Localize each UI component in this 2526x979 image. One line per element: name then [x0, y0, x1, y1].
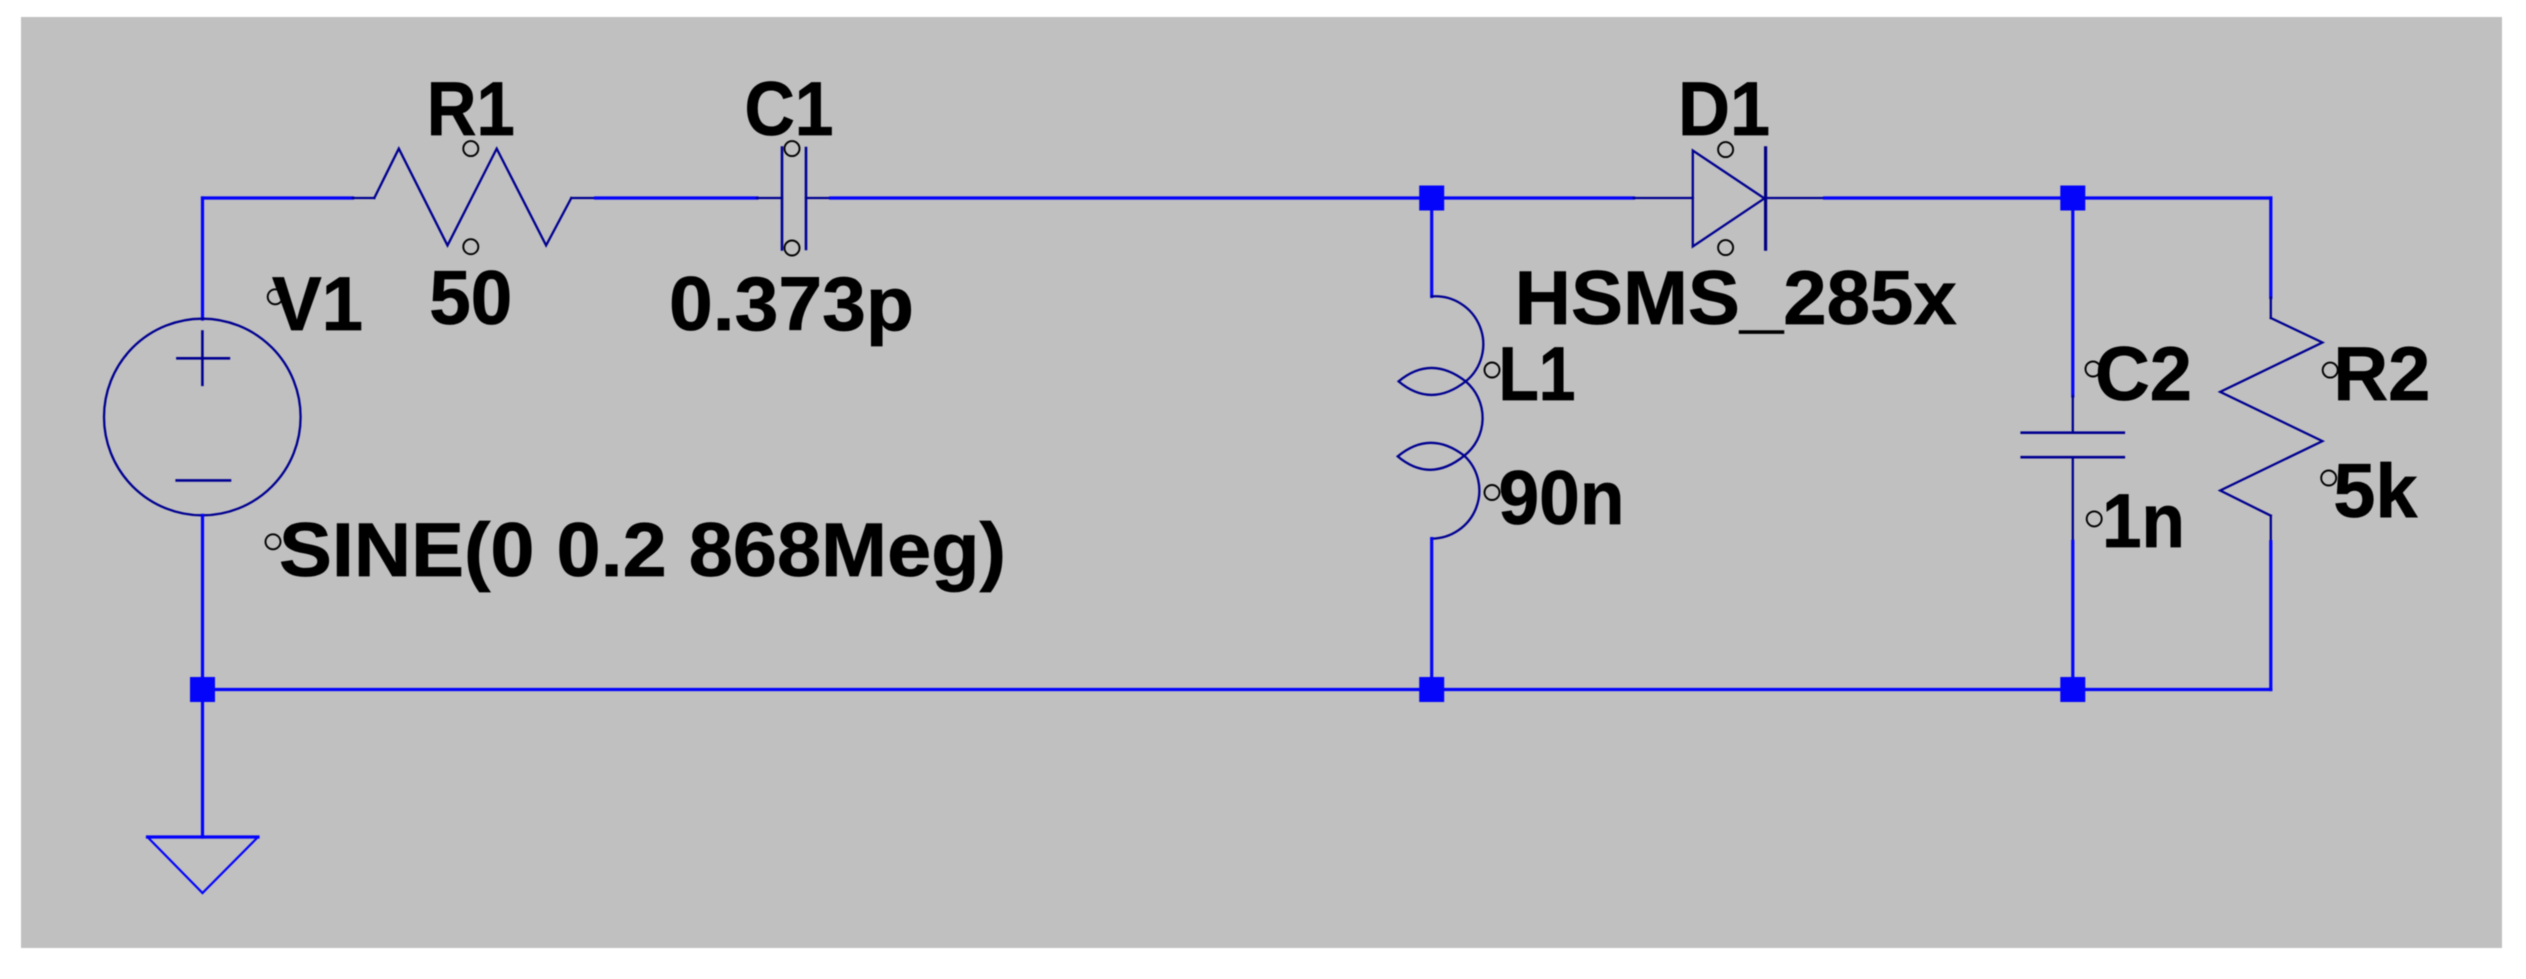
anchor marker C1 label — [785, 141, 800, 156]
svg-text:D1: D1 — [1678, 67, 1770, 152]
svg-text:50: 50 — [429, 256, 512, 341]
junction ground node — [190, 677, 215, 702]
value 1n — [2102, 479, 2185, 564]
anchor marker C2 label — [2086, 362, 2101, 377]
svg-text:C1: C1 — [745, 67, 834, 152]
anchor marker R2 value — [2321, 471, 2336, 486]
wire bottom rail: node N3 to node N4 — [1432, 688, 2073, 691]
value 5k — [2333, 449, 2418, 534]
label C1 — [745, 67, 834, 152]
value 50 — [429, 256, 512, 341]
svg-text:0.373p: 0.373p — [669, 262, 914, 347]
label L1 — [1499, 332, 1576, 417]
svg-text:SINE(0 0.2 868Meg): SINE(0 0.2 868Meg) — [279, 508, 1006, 593]
inductor L1 — [1398, 296, 1484, 538]
wire top rail: D1 to node N2 — [1825, 196, 2073, 199]
label R1 — [427, 67, 515, 152]
wire L1 bottom lead — [1430, 539, 1433, 690]
label C2 — [2095, 332, 2192, 417]
wire top rail: R1 to C1 — [596, 196, 757, 199]
capacitor C1 — [757, 148, 831, 250]
anchor marker R1 label — [463, 141, 478, 156]
anchor marker R2 label — [2323, 363, 2338, 378]
wire V1 bottom lead — [201, 515, 204, 689]
value HSMS_285x — [1515, 256, 1957, 341]
wire bottom rail: ground node to node N3 — [203, 688, 1432, 691]
anchor marker V1 label — [268, 289, 283, 304]
junction node N1 — [1419, 186, 1444, 211]
anchor marker C1 value — [785, 241, 800, 256]
svg-text:V1: V1 — [272, 262, 363, 347]
wire top rail: node N2 to R2 corner — [2073, 196, 2271, 199]
wire R2 bottom vertical — [2269, 542, 2272, 690]
wire bottom rail: node N4 to R2 — [2073, 688, 2271, 691]
wire top rail: C1 to node N1 — [831, 196, 1432, 199]
label V1 — [272, 262, 363, 347]
wire C2 bottom lead — [2071, 541, 2074, 689]
wire C2 top lead — [2071, 198, 2074, 396]
value 90n — [1499, 456, 1625, 541]
wire ground stem — [201, 690, 204, 838]
anchor marker D1 label — [1718, 142, 1733, 157]
resistor R2 — [2220, 298, 2322, 542]
ground — [148, 837, 259, 893]
wire top rail: V1 to R1 — [203, 196, 353, 199]
value 0.373p — [669, 262, 914, 347]
anchor marker D1 value — [1718, 240, 1733, 255]
anchor marker C2 value — [2087, 511, 2102, 526]
value SINE(0 0.2 868Meg) — [279, 508, 1006, 593]
junction node N4 — [2060, 677, 2085, 702]
resistor R1 — [353, 149, 596, 246]
anchor marker L1 value — [1485, 485, 1500, 500]
svg-text:90n: 90n — [1499, 456, 1625, 541]
diode D1 — [1634, 148, 1825, 249]
wire top-left vertical (V1 top lead to top rail) — [201, 198, 204, 319]
wire L1 top lead — [1430, 198, 1433, 296]
svg-text:HSMS_285x: HSMS_285x — [1515, 256, 1957, 341]
label D1 — [1678, 67, 1770, 152]
svg-text:5k: 5k — [2333, 449, 2418, 534]
label R2 — [2333, 332, 2430, 417]
wire top rail: node N1 to D1 — [1432, 196, 1634, 199]
svg-text:R2: R2 — [2333, 332, 2430, 417]
wire R2 top vertical — [2269, 198, 2272, 298]
voltage source V1 — [104, 319, 301, 516]
anchor marker R1 value — [463, 239, 478, 254]
anchor marker V1 value — [266, 534, 281, 549]
capacitor C2 — [2022, 396, 2124, 541]
svg-text:1n: 1n — [2102, 479, 2185, 564]
svg-text:R1: R1 — [427, 67, 515, 152]
anchor marker L1 label — [1485, 363, 1500, 378]
junction node N3 — [1419, 677, 1444, 702]
svg-text:L1: L1 — [1499, 332, 1576, 417]
svg-text:C2: C2 — [2095, 332, 2192, 417]
junction node N2 — [2060, 186, 2085, 211]
